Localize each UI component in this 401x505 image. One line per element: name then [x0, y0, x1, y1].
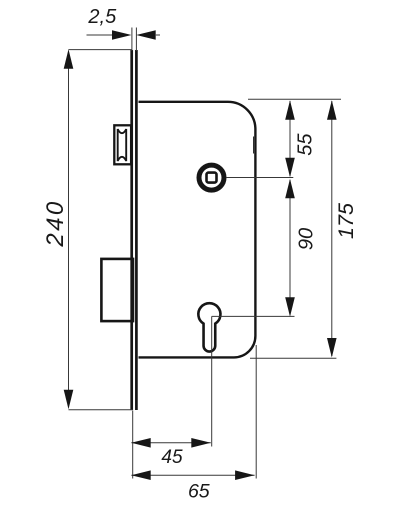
- 55 top arrow: [285, 100, 295, 120]
- 45 left arrow: [131, 438, 151, 448]
- svg-text:90: 90: [296, 228, 318, 250]
- 90 top arrow: [285, 179, 295, 199]
- 240 bottom extension: [69, 409, 133, 411]
- svg-text:2,5: 2,5: [87, 6, 117, 28]
- follower square spindle hub: [199, 165, 224, 190]
- top reference extension (55/175): [248, 98, 341, 100]
- 65 right arrow: [235, 470, 255, 480]
- svg-text:45: 45: [161, 447, 183, 468]
- 240 top extension: [69, 49, 133, 51]
- case edge seam on right side: [253, 137, 255, 154]
- euro cylinder keyhole: [198, 303, 220, 351]
- svg-text:175: 175: [334, 202, 358, 239]
- 2,5 right arrow: [136, 30, 156, 39]
- 240 top arrow: [64, 49, 74, 68]
- 55 dim line: [289, 101, 291, 176]
- deadbolt: [101, 259, 133, 321]
- faceplate front line: [130, 50, 133, 410]
- 2,5 left arrow: [112, 30, 132, 39]
- 2,5 extension ticks: [131, 28, 133, 52]
- follower center extension: [226, 177, 293, 179]
- 240 bottom arrow: [64, 390, 74, 410]
- 240 dim line: [68, 52, 70, 407]
- bottom reference extension (175): [250, 357, 336, 359]
- 45 right arrow: [191, 438, 211, 448]
- left bottom extension: [132, 411, 134, 479]
- faceplate back line: [135, 50, 138, 410]
- svg-text:240: 240: [42, 199, 69, 247]
- svg-text:55: 55: [295, 133, 317, 156]
- 90 bottom arrow: [285, 297, 295, 317]
- thin dimension and extension lines: [69, 28, 342, 479]
- svg-text:65: 65: [188, 481, 210, 503]
- right bottom extension: [255, 345, 257, 479]
- 90 dim line: [289, 180, 291, 315]
- 2,5 dim tails: [87, 34, 113, 36]
- 55 bottom arrow: [285, 158, 295, 178]
- lock body case outline: [139, 102, 256, 358]
- 175 dim line: [331, 101, 333, 356]
- 65 dim line: [131, 474, 254, 476]
- 175 top arrow: [327, 100, 337, 120]
- cylinder center v extension: [211, 316, 213, 446]
- latch bolt inner bevel: [118, 129, 127, 161]
- 45 dim line: [131, 442, 210, 444]
- cylinder center h extension: [212, 315, 295, 317]
- 65 left arrow: [131, 470, 151, 480]
- arrowheads: [64, 30, 337, 480]
- latch bolt outer: [114, 125, 131, 164]
- 175 bottom arrow: [327, 338, 337, 358]
